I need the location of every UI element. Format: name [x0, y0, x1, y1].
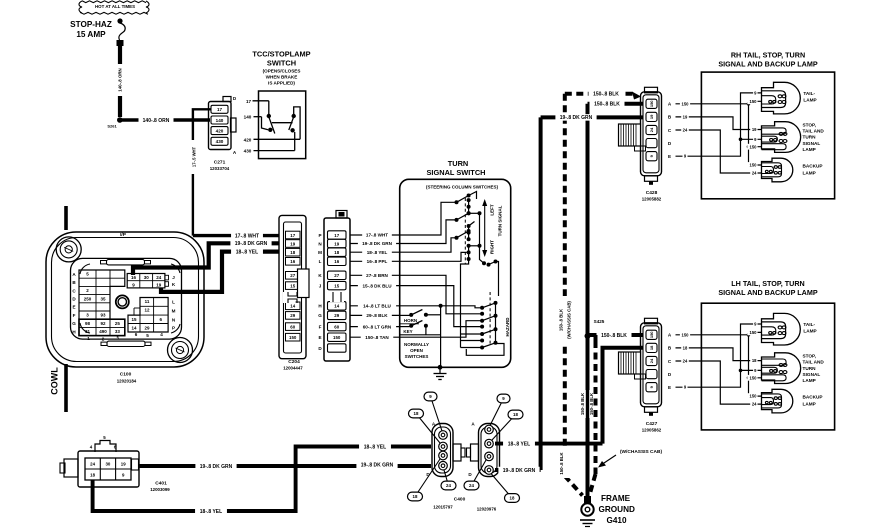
svg-text:18: 18 — [290, 250, 295, 255]
svg-text:12033704: 12033704 — [210, 166, 230, 171]
svg-text:FRAME: FRAME — [601, 494, 631, 503]
svg-text:12003099: 12003099 — [150, 487, 170, 492]
svg-text:17: 17 — [217, 107, 223, 112]
svg-text:C427: C427 — [646, 421, 658, 427]
svg-text:150: 150 — [750, 163, 758, 168]
svg-text:OPEN: OPEN — [410, 348, 423, 353]
svg-text:12020976: 12020976 — [477, 507, 497, 512]
svg-text:93: 93 — [100, 313, 106, 318]
svg-text:150: 150 — [750, 375, 758, 380]
svg-text:RIGHT: RIGHT — [490, 240, 495, 254]
svg-text:C271: C271 — [214, 160, 226, 166]
svg-text:J: J — [319, 283, 322, 288]
svg-text:24: 24 — [90, 462, 95, 467]
svg-text:140-.8 ORN: 140-.8 ORN — [118, 68, 123, 91]
svg-text:LAMP: LAMP — [803, 98, 816, 103]
svg-text:24: 24 — [649, 127, 654, 132]
svg-text:19: 19 — [121, 462, 126, 467]
svg-text:LAMP: LAMP — [803, 329, 816, 334]
svg-text:24: 24 — [752, 402, 757, 407]
svg-text:S261: S261 — [107, 124, 117, 129]
svg-text:SWITCH: SWITCH — [267, 59, 296, 68]
svg-text:C400: C400 — [454, 497, 466, 503]
svg-text:150-.8 BLK: 150-.8 BLK — [559, 452, 564, 475]
svg-text:LAMP: LAMP — [803, 402, 816, 407]
svg-text:150: 150 — [750, 144, 758, 149]
svg-text:(W/CHASSIS CAB): (W/CHASSIS CAB) — [620, 449, 663, 455]
svg-text:29: 29 — [290, 313, 295, 318]
svg-text:150: 150 — [649, 331, 654, 338]
svg-text:150: 150 — [750, 99, 758, 104]
svg-text:12005882: 12005882 — [642, 196, 662, 201]
svg-text:18: 18 — [90, 473, 95, 478]
svg-text:17-.8 WHT: 17-.8 WHT — [366, 233, 388, 238]
svg-text:L: L — [319, 259, 322, 264]
svg-text:17: 17 — [246, 99, 252, 104]
svg-text:12: 12 — [144, 308, 150, 313]
svg-text:18: 18 — [649, 345, 654, 350]
svg-text:L: L — [172, 300, 175, 305]
svg-text:12004447: 12004447 — [283, 366, 303, 371]
svg-text:19-.8 DK GRN: 19-.8 DK GRN — [361, 463, 394, 469]
svg-text:BACKUP: BACKUP — [803, 395, 823, 400]
svg-text:18: 18 — [683, 345, 688, 350]
svg-text:STOP,: STOP, — [803, 123, 816, 128]
svg-text:30: 30 — [144, 275, 150, 280]
svg-text:150: 150 — [750, 330, 758, 335]
svg-text:29: 29 — [334, 313, 339, 318]
svg-text:SIGNAL: SIGNAL — [803, 372, 821, 377]
svg-text:P: P — [172, 326, 175, 331]
svg-text:18-.8 YEL: 18-.8 YEL — [367, 250, 388, 255]
svg-text:11: 11 — [145, 299, 150, 304]
svg-text:E: E — [668, 154, 671, 159]
svg-text:SIGNAL AND BACKUP LAMP: SIGNAL AND BACKUP LAMP — [718, 288, 818, 297]
svg-text:14: 14 — [334, 304, 339, 309]
svg-text:TAIL-: TAIL- — [803, 322, 815, 327]
svg-text:TURN: TURN — [448, 159, 469, 168]
svg-text:14: 14 — [131, 325, 137, 330]
svg-text:NORMALLY: NORMALLY — [404, 342, 429, 347]
svg-text:SIGNAL SWITCH: SIGNAL SWITCH — [427, 168, 486, 177]
svg-text:12005862: 12005862 — [642, 427, 662, 432]
svg-text:18: 18 — [414, 411, 419, 416]
svg-text:IS APPLIED): IS APPLIED) — [268, 81, 295, 86]
svg-text:150-.8 BLK: 150-.8 BLK — [593, 92, 619, 98]
svg-text:150-.8 BLK: 150-.8 BLK — [601, 333, 627, 339]
svg-text:TURN: TURN — [803, 135, 817, 140]
svg-text:LEFT: LEFT — [490, 204, 495, 215]
svg-text:F: F — [319, 324, 322, 329]
svg-text:29: 29 — [144, 325, 150, 330]
svg-text:19: 19 — [649, 114, 654, 119]
svg-text:98: 98 — [85, 321, 91, 326]
svg-text:150: 150 — [682, 332, 690, 337]
svg-text:16: 16 — [334, 259, 339, 264]
svg-text:HORN: HORN — [404, 318, 417, 323]
svg-text:18-.8 YEL: 18-.8 YEL — [508, 441, 530, 447]
svg-text:150: 150 — [649, 100, 654, 107]
svg-text:RH TAIL, STOP, TURN: RH TAIL, STOP, TURN — [731, 51, 805, 60]
svg-text:19: 19 — [334, 241, 339, 246]
svg-text:E: E — [668, 385, 671, 390]
svg-text:24: 24 — [649, 358, 654, 363]
svg-text:150-.8 BLK: 150-.8 BLK — [594, 102, 620, 108]
svg-text:17: 17 — [290, 233, 295, 238]
svg-text:E: E — [318, 335, 321, 340]
svg-text:S425: S425 — [594, 319, 605, 324]
svg-text:60: 60 — [334, 324, 339, 329]
svg-text:LH TAIL, STOP, TURN: LH TAIL, STOP, TURN — [731, 279, 804, 288]
svg-text:19: 19 — [683, 114, 688, 119]
svg-text:24: 24 — [156, 275, 162, 280]
svg-text:420: 420 — [244, 137, 252, 142]
svg-text:TCC/STOPLAMP: TCC/STOPLAMP — [252, 50, 310, 59]
svg-text:M: M — [318, 250, 322, 255]
svg-text:29-.8 BLK: 29-.8 BLK — [366, 313, 388, 318]
svg-text:150-.8 BLK: 150-.8 BLK — [580, 392, 585, 415]
svg-text:27: 27 — [334, 273, 339, 278]
svg-text:C401: C401 — [155, 481, 167, 487]
svg-text:18: 18 — [413, 494, 418, 499]
svg-text:18: 18 — [752, 358, 757, 363]
svg-text:3: 3 — [116, 336, 119, 341]
svg-text:30: 30 — [105, 462, 110, 467]
svg-text:1: 1 — [87, 336, 90, 341]
svg-text:TURN: TURN — [803, 366, 817, 371]
svg-text:19-.8 DK GRN: 19-.8 DK GRN — [362, 241, 393, 246]
svg-text:14: 14 — [290, 304, 295, 309]
svg-text:G: G — [318, 313, 322, 318]
svg-text:12020184: 12020184 — [117, 379, 137, 384]
svg-text:24: 24 — [446, 483, 451, 488]
svg-text:24: 24 — [469, 483, 474, 488]
svg-text:27-.8 BRN: 27-.8 BRN — [366, 273, 388, 278]
svg-text:2: 2 — [102, 336, 105, 341]
svg-text:18: 18 — [334, 250, 339, 255]
svg-text:KEY: KEY — [403, 329, 412, 334]
svg-text:430: 430 — [216, 139, 224, 144]
svg-text:25: 25 — [115, 321, 121, 326]
svg-text:19: 19 — [752, 127, 757, 132]
svg-text:33: 33 — [115, 329, 121, 334]
svg-text:C428: C428 — [646, 190, 658, 196]
svg-text:150: 150 — [682, 101, 690, 106]
svg-text:E: E — [72, 305, 75, 310]
svg-text:12015797: 12015797 — [433, 505, 453, 510]
svg-text:TURN SIGNAL: TURN SIGNAL — [498, 205, 503, 236]
svg-text:17: 17 — [334, 233, 339, 238]
svg-text:24: 24 — [683, 128, 688, 133]
svg-text:STOP,: STOP, — [803, 354, 816, 359]
svg-text:SWITCHES: SWITCHES — [405, 354, 429, 359]
svg-text:HOT AT ALL TIMES: HOT AT ALL TIMES — [95, 4, 135, 9]
svg-text:35: 35 — [100, 296, 106, 301]
svg-text:M: M — [172, 309, 176, 314]
svg-text:16: 16 — [290, 259, 295, 264]
svg-text:COWL: COWL — [50, 367, 60, 395]
svg-text:TAIL AND: TAIL AND — [803, 360, 825, 365]
svg-text:GROUND: GROUND — [599, 505, 635, 514]
svg-text:18: 18 — [513, 412, 518, 417]
svg-text:150: 150 — [750, 394, 758, 399]
svg-text:19-.8 DK GRN: 19-.8 DK GRN — [200, 464, 233, 470]
svg-text:15: 15 — [334, 283, 339, 288]
svg-text:19: 19 — [290, 241, 295, 246]
svg-text:15 AMP: 15 AMP — [76, 30, 106, 39]
svg-text:TAIL-: TAIL- — [803, 91, 815, 96]
svg-text:F: F — [73, 313, 76, 318]
svg-text:27: 27 — [290, 273, 295, 278]
svg-text:17-.5 WHT: 17-.5 WHT — [191, 146, 196, 167]
svg-text:150: 150 — [289, 335, 297, 340]
svg-text:C100: C100 — [120, 372, 132, 378]
svg-text:490: 490 — [99, 329, 107, 334]
svg-text:TAIL AND: TAIL AND — [803, 129, 825, 134]
svg-text:(W/CHASSIS CAB): (W/CHASSIS CAB) — [567, 301, 572, 339]
svg-text:14-.8 LT BLU: 14-.8 LT BLU — [363, 303, 391, 308]
svg-text:31: 31 — [85, 329, 91, 334]
svg-text:LAMP: LAMP — [803, 171, 816, 176]
svg-text:19-.8 DK GRN: 19-.8 DK GRN — [235, 241, 268, 247]
svg-text:G: G — [72, 321, 76, 326]
svg-text:420: 420 — [216, 128, 224, 133]
svg-text:J: J — [172, 275, 175, 280]
svg-text:P: P — [318, 233, 321, 238]
svg-text:C204: C204 — [288, 359, 300, 365]
svg-text:150: 150 — [333, 335, 341, 340]
svg-text:60-.8 LT GRN: 60-.8 LT GRN — [363, 324, 392, 329]
svg-text:SIGNAL AND BACKUP LAMP: SIGNAL AND BACKUP LAMP — [718, 60, 818, 69]
svg-text:92: 92 — [100, 321, 106, 326]
svg-text:24: 24 — [752, 171, 757, 176]
svg-text:19: 19 — [156, 282, 162, 287]
svg-text:SIGNAL: SIGNAL — [803, 141, 821, 146]
svg-text:15: 15 — [131, 317, 137, 322]
svg-text:16: 16 — [131, 275, 137, 280]
svg-text:16-.8 PPL: 16-.8 PPL — [367, 259, 388, 264]
svg-text:G410: G410 — [607, 516, 627, 525]
svg-text:140: 140 — [216, 118, 224, 123]
svg-text:15: 15 — [290, 283, 295, 288]
svg-text:6: 6 — [135, 332, 138, 337]
svg-text:24: 24 — [683, 359, 688, 364]
svg-text:430: 430 — [244, 149, 252, 154]
svg-text:18-.8 YEL: 18-.8 YEL — [200, 509, 222, 515]
svg-text:HAZARD: HAZARD — [505, 317, 510, 337]
svg-text:(STEERING COLUMN SWITCHES): (STEERING COLUMN SWITCHES) — [426, 184, 498, 189]
svg-text:140: 140 — [244, 115, 252, 120]
svg-text:140-.8 ORN: 140-.8 ORN — [143, 118, 170, 124]
svg-text:18-.8 YEL: 18-.8 YEL — [236, 249, 258, 255]
svg-text:STOP-HAZ: STOP-HAZ — [70, 20, 112, 29]
svg-text:(OPENS/CLOSES: (OPENS/CLOSES — [263, 69, 301, 74]
svg-text:LAMP: LAMP — [803, 378, 816, 383]
svg-text:150-.8 BLK: 150-.8 BLK — [559, 308, 564, 331]
svg-text:WHEN BRAKE: WHEN BRAKE — [266, 75, 298, 80]
svg-text:18-.8 YEL: 18-.8 YEL — [364, 444, 386, 450]
svg-text:19-.8 DK GRN: 19-.8 DK GRN — [560, 115, 593, 121]
svg-text:4: 4 — [160, 332, 163, 337]
svg-text:LAMP: LAMP — [803, 147, 816, 152]
svg-text:60: 60 — [290, 324, 295, 329]
svg-text:150-.8 BLK: 150-.8 BLK — [589, 392, 594, 415]
svg-text:15-.8 DK BLU: 15-.8 DK BLU — [362, 283, 392, 288]
svg-text:250: 250 — [84, 296, 92, 301]
svg-text:18: 18 — [510, 496, 515, 501]
svg-text:150-.8 TAN: 150-.8 TAN — [365, 335, 389, 340]
svg-text:BACKUP: BACKUP — [803, 164, 823, 169]
svg-text:17-.8 WHT: 17-.8 WHT — [235, 233, 259, 239]
svg-text:5: 5 — [146, 333, 149, 338]
svg-text:19-.8 DK GRN: 19-.8 DK GRN — [503, 468, 536, 474]
